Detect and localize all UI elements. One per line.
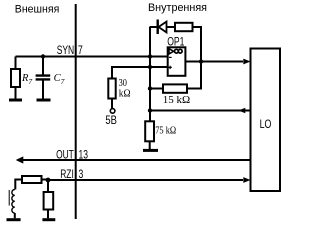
svg-text:OP1: OP1 <box>167 34 184 48</box>
svg-text:13: 13 <box>79 147 89 161</box>
svg-text:kΩ: kΩ <box>119 88 131 100</box>
svg-text:15 kΩ: 15 kΩ <box>163 94 190 106</box>
svg-text:RZI: RZI <box>60 167 74 181</box>
svg-text:Внутренняя: Внутренняя <box>148 2 207 14</box>
svg-text:SYN: SYN <box>57 43 74 57</box>
svg-text:5В: 5В <box>105 113 117 127</box>
svg-text:LO: LO <box>260 117 272 131</box>
svg-text:OUT: OUT <box>56 147 74 161</box>
svg-text:75 kΩ: 75 kΩ <box>155 125 176 137</box>
svg-text:Внешняя: Внешняя <box>15 3 60 15</box>
svg-text:3: 3 <box>79 167 84 181</box>
svg-text:7: 7 <box>78 43 83 57</box>
